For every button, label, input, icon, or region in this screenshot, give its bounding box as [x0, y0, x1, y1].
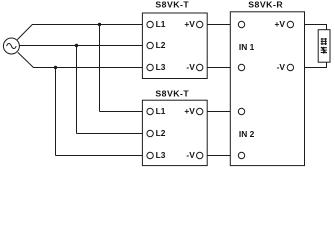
svg-text:L1: L1: [156, 19, 166, 29]
svg-text:IN 2: IN 2: [239, 129, 255, 139]
svg-text:L3: L3: [156, 62, 166, 72]
svg-text:L3: L3: [156, 150, 166, 160]
svg-text:S8VK-T: S8VK-T: [155, 0, 189, 10]
svg-text:-V: -V: [277, 62, 286, 72]
svg-text:+V: +V: [275, 19, 286, 29]
svg-text:S8VK-T: S8VK-T: [155, 89, 189, 99]
svg-text:L1: L1: [156, 106, 166, 116]
svg-text:-V: -V: [186, 62, 195, 72]
svg-text:L2: L2: [156, 128, 166, 138]
svg-text:-V: -V: [186, 150, 195, 160]
svg-text:+V: +V: [184, 19, 195, 29]
svg-text:+V: +V: [184, 106, 195, 116]
svg-text:S8VK-R: S8VK-R: [248, 0, 283, 9]
svg-text:IN 1: IN 1: [239, 42, 255, 52]
svg-text:L2: L2: [156, 40, 166, 50]
